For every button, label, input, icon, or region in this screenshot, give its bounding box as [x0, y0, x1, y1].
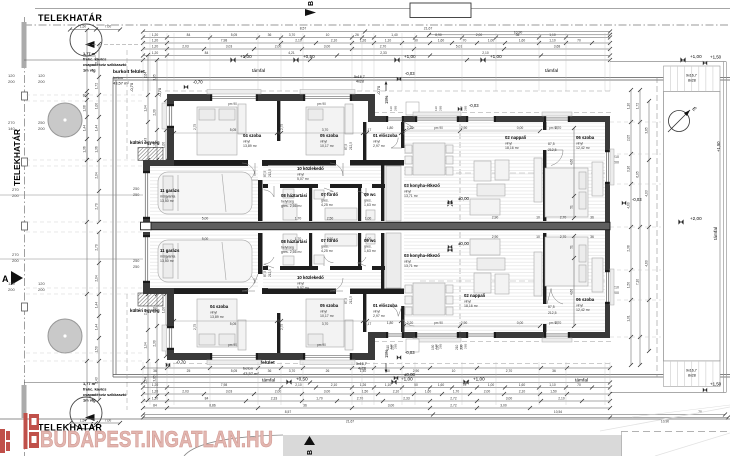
interior wall 05|01 bottom — [363, 294, 366, 332]
top border line — [35, 8, 730, 10]
svg-text:1,10: 1,10 — [385, 38, 392, 42]
soakaway symbol bottom — [70, 397, 102, 429]
svg-text:-0,03: -0,03 — [405, 71, 415, 76]
svg-text:36: 36 — [590, 216, 594, 220]
svg-text:gres.: gres. — [321, 199, 329, 203]
svg-text:1,50: 1,50 — [550, 389, 557, 393]
svg-text:vinyl: vinyl — [297, 173, 304, 177]
svg-text:+1,50: +1,50 — [710, 55, 722, 60]
svg-text:2,00: 2,00 — [275, 389, 282, 393]
svg-text:2,75: 2,75 — [193, 324, 197, 330]
svg-text:87,5: 87,5 — [548, 142, 555, 146]
svg-text:2,30: 2,30 — [153, 340, 157, 346]
svg-text:1,10: 1,10 — [549, 33, 556, 37]
window sill 04 left — [162, 103, 167, 129]
svg-text:25: 25 — [187, 369, 191, 373]
svg-text:2,05: 2,05 — [627, 135, 631, 141]
room 06 dim col — [573, 128, 575, 218]
svg-text:1,72: 1,72 — [95, 83, 99, 89]
svg-text:02 nappali: 02 nappali — [505, 135, 526, 140]
svg-text:8,90: 8,90 — [435, 33, 442, 37]
interior dim line bedrooms top — [174, 132, 401, 134]
svg-text:3,68: 3,68 — [554, 44, 561, 48]
svg-text:támfal: támfal — [713, 227, 719, 240]
svg-text:frakc. kavics: frakc. kavics — [83, 387, 106, 392]
svg-text:1,20: 1,20 — [152, 44, 159, 48]
dim row 21,67 bottom — [143, 417, 728, 419]
kitchen counter bottom — [386, 233, 401, 288]
svg-text:vinyl: vinyl — [373, 310, 380, 314]
svg-text:1,10: 1,10 — [549, 38, 556, 42]
svg-text:212,5: 212,5 — [349, 142, 353, 150]
svg-text:270: 270 — [12, 252, 19, 257]
wardrobe room06 bottom — [592, 258, 603, 292]
dim row 8,57 / 10,54 — [143, 414, 725, 416]
svg-text:3,00: 3,00 — [324, 44, 331, 48]
svg-text:1,80: 1,80 — [387, 126, 394, 130]
svg-text:10: 10 — [326, 33, 330, 37]
party wall end cap — [141, 222, 152, 230]
svg-text:3,00: 3,00 — [506, 396, 513, 400]
svg-text:1,70: 1,70 — [295, 217, 302, 221]
window 06b right — [605, 270, 610, 304]
window sill 06 right — [610, 149, 614, 185]
kitchen counter — [386, 166, 401, 221]
svg-text:támfal: támfal — [252, 68, 265, 74]
svg-text:51: 51 — [570, 245, 574, 249]
svg-text:250: 250 — [133, 187, 139, 191]
svg-text:2,72: 2,72 — [450, 403, 457, 407]
svg-text:2,10: 2,10 — [558, 396, 565, 400]
svg-text:1,50: 1,50 — [80, 25, 87, 29]
svg-text:84: 84 — [205, 51, 209, 55]
svg-text:2,70: 2,70 — [555, 126, 562, 130]
interior dim line kitchen top — [404, 130, 540, 132]
interior wall 07|09 — [358, 188, 361, 221]
svg-text:9x16,7: 9x16,7 — [686, 369, 697, 373]
svg-text:4,21: 4,21 — [288, 51, 295, 55]
svg-text:12,42 m²: 12,42 m² — [576, 146, 591, 150]
property line top dash-dot — [24, 24, 730, 26]
svg-text:vinyl: vinyl — [320, 140, 327, 144]
dim row bottom-left 1,50 7,00 — [70, 422, 120, 424]
terrace right double edge — [723, 62, 725, 393]
svg-text:03 konyha-étkező: 03 konyha-étkező — [404, 253, 440, 258]
garage left wall bottom — [143, 232, 150, 288]
svg-text:36: 36 — [83, 94, 87, 98]
svg-text:200: 200 — [8, 287, 15, 292]
svg-text:8,86: 8,86 — [209, 403, 216, 407]
svg-text:1,90: 1,90 — [153, 142, 157, 148]
window 05 top — [303, 94, 352, 101]
garage door top — [143, 171, 150, 219]
svg-text:2,70: 2,70 — [560, 216, 567, 220]
svg-text:13,50 m²: 13,50 m² — [160, 259, 175, 263]
right dim chains — [630, 90, 632, 365]
dim rows top — [143, 37, 610, 39]
terrace door bottom — [466, 332, 496, 338]
svg-text:2,04: 2,04 — [95, 275, 99, 281]
svg-text:B: B — [307, 450, 314, 455]
dining table bottom — [413, 283, 445, 315]
svg-text:110: 110 — [434, 106, 438, 111]
window 06 bottom — [544, 332, 570, 338]
wall bottom right section — [375, 332, 610, 338]
svg-text:1,10: 1,10 — [627, 103, 631, 109]
svg-text:212,5: 212,5 — [268, 169, 272, 177]
svg-text:pm 90: pm 90 — [434, 321, 443, 325]
svg-text:10,17 m²: 10,17 m² — [320, 144, 335, 148]
svg-text:műgyanta: műgyanta — [160, 195, 175, 199]
svg-text:1,10: 1,10 — [549, 383, 556, 387]
svg-text:1,60: 1,60 — [519, 38, 526, 42]
svg-text:10,54: 10,54 — [554, 410, 562, 414]
svg-text:1,08: 1,08 — [83, 105, 87, 111]
left dim chain x87 — [86, 30, 88, 419]
svg-text:212,5: 212,5 — [349, 296, 353, 304]
svg-text:87,5: 87,5 — [548, 305, 555, 309]
svg-text:1,60: 1,60 — [519, 383, 526, 387]
svg-text:36: 36 — [590, 235, 594, 239]
svg-text:2,70: 2,70 — [380, 44, 387, 48]
watermark small left — [0, 429, 10, 453]
fence panel gray bar — [22, 22, 27, 68]
svg-text:04 szoba: 04 szoba — [210, 304, 229, 309]
svg-text:3,70: 3,70 — [322, 322, 329, 326]
window sill 06 top — [542, 112, 572, 116]
interior wall nappali|06 stub — [543, 122, 546, 130]
window 04 top — [210, 94, 258, 101]
interior wall nappali|06 stub bottom — [543, 324, 546, 332]
svg-text:190: 190 — [431, 344, 435, 350]
svg-text:6,05: 6,05 — [636, 171, 640, 177]
svg-text:1,36: 1,36 — [95, 146, 99, 152]
svg-text:2,97 m²: 2,97 m² — [373, 314, 386, 318]
stairs top right — [664, 66, 721, 92]
svg-text:36: 36 — [268, 33, 272, 37]
svg-text:2,90: 2,90 — [413, 369, 420, 373]
interior wall baths|kitchen — [381, 160, 384, 221]
svg-text:1,00: 1,00 — [95, 103, 99, 109]
svg-text:4,60: 4,60 — [627, 202, 631, 208]
interior wall 04|05 bottom — [277, 313, 280, 353]
level line right top — [610, 61, 726, 63]
svg-text:200: 200 — [460, 344, 464, 350]
svg-text:+1,00: +1,00 — [404, 54, 416, 59]
svg-text:8,57: 8,57 — [285, 410, 292, 414]
watermark logo — [24, 413, 40, 449]
svg-text:06 szoba: 06 szoba — [576, 135, 595, 140]
svg-text:+1,50: +1,50 — [716, 141, 721, 152]
svg-text:2,20: 2,20 — [407, 126, 414, 130]
svg-text:2,37: 2,37 — [95, 57, 99, 63]
svg-text:7,98: 7,98 — [221, 38, 228, 42]
svg-text:műgyanta: műgyanta — [160, 255, 175, 259]
svg-text:3,16: 3,16 — [627, 166, 631, 172]
terrace door top — [466, 116, 496, 122]
svg-text:vinyl: vinyl — [404, 190, 411, 194]
svg-text:gres.: gres. — [321, 245, 329, 249]
svg-text:5,05: 5,05 — [231, 369, 238, 373]
svg-text:1m vtg: 1m vtg — [83, 398, 96, 403]
svg-text:250: 250 — [133, 265, 139, 269]
svg-text:1,70: 1,70 — [316, 396, 323, 400]
svg-text:1,77 m²: 1,77 m² — [83, 51, 97, 56]
svg-text:1,50: 1,50 — [627, 282, 631, 288]
svg-text:1,00: 1,00 — [365, 217, 372, 221]
svg-text:120: 120 — [38, 281, 45, 286]
garage bottom wall — [143, 288, 268, 294]
svg-text:2,10: 2,10 — [331, 38, 338, 42]
svg-text:2,70: 2,70 — [555, 321, 562, 325]
left dim chain x99 — [98, 44, 100, 222]
svg-text:5,07 m²: 5,07 m² — [297, 286, 310, 290]
svg-text:±0,00: ±0,00 — [458, 241, 470, 246]
svg-text:1,94: 1,94 — [144, 105, 148, 111]
svg-text:2,70: 2,70 — [95, 203, 99, 209]
svg-text:1,50: 1,50 — [362, 389, 369, 393]
road dashed line right — [621, 431, 730, 433]
interior wall corridor|baths — [263, 184, 268, 188]
svg-text:1,00: 1,00 — [365, 237, 372, 241]
svg-text:-0,70: -0,70 — [193, 80, 203, 85]
interior wall garage|08 bottom — [258, 233, 263, 274]
driveway lines left — [0, 194, 143, 196]
svg-text:1,10: 1,10 — [385, 383, 392, 387]
svg-text:+1,00: +1,00 — [401, 377, 413, 382]
svg-text:200: 200 — [12, 193, 19, 198]
ramp arrow top — [385, 83, 387, 91]
svg-text:1,60: 1,60 — [438, 38, 445, 42]
svg-text:12,42 m²: 12,42 m² — [576, 308, 591, 312]
svg-text:200: 200 — [38, 79, 45, 84]
window sill 04 — [207, 90, 261, 95]
svg-text:87,5: 87,5 — [344, 144, 348, 150]
svg-text:5,05: 5,05 — [230, 322, 237, 326]
svg-text:7,10: 7,10 — [636, 279, 640, 285]
svg-text:10: 10 — [536, 235, 540, 239]
svg-text:3,70: 3,70 — [322, 128, 329, 132]
svg-text:2,90: 2,90 — [492, 235, 499, 239]
garage left wall — [143, 166, 150, 222]
window nappali top — [415, 116, 459, 122]
svg-text:43,57 m²: 43,57 m² — [243, 371, 259, 376]
svg-text:3,00: 3,00 — [388, 403, 395, 407]
svg-text:2,75: 2,75 — [193, 124, 197, 130]
svg-text:120: 120 — [8, 281, 15, 286]
interior wall bedrooms|halls bottom — [174, 289, 248, 295]
wardrobe room05 — [345, 104, 353, 134]
bed room04 — [197, 107, 237, 155]
wardrobe room04 — [238, 104, 246, 134]
bed room06 — [545, 168, 588, 217]
window sill 06b right — [610, 269, 614, 305]
window 06 top — [544, 116, 570, 122]
svg-text:0,00: 0,00 — [517, 321, 524, 325]
svg-text:01 előszoba: 01 előszoba — [373, 303, 398, 308]
svg-text:3,00: 3,00 — [324, 389, 331, 393]
window sill 06 bottom — [542, 338, 572, 342]
svg-text:1,00: 1,00 — [162, 307, 166, 313]
tree bottom — [48, 319, 82, 353]
interior wall 01|nappali — [401, 122, 404, 148]
svg-text:15%: 15% — [384, 95, 389, 104]
svg-text:1,36: 1,36 — [83, 146, 87, 152]
svg-text:84: 84 — [153, 403, 157, 407]
svg-text:1,44: 1,44 — [95, 302, 99, 308]
svg-text:-0,70: -0,70 — [176, 360, 186, 365]
svg-text:11 garázs: 11 garázs — [160, 188, 180, 193]
wall right exterior — [605, 116, 610, 338]
svg-text:50: 50 — [414, 38, 418, 42]
bed room05 — [306, 107, 344, 155]
svg-text:2,00: 2,00 — [484, 389, 491, 393]
svg-text:2,10: 2,10 — [295, 38, 302, 42]
svg-text:2,75: 2,75 — [280, 324, 284, 330]
interior wall baths|kitchen bottom — [381, 233, 384, 294]
svg-text:2,30: 2,30 — [153, 109, 157, 115]
svg-text:2,33: 2,33 — [403, 396, 410, 400]
svg-text:13,89 m²: 13,89 m² — [210, 315, 225, 319]
window sill nappali top — [413, 112, 461, 116]
svg-text:3,70: 3,70 — [289, 369, 296, 373]
svg-text:18,16 m²: 18,16 m² — [505, 146, 520, 150]
svg-text:1,80: 1,80 — [387, 321, 394, 325]
svg-text:36: 36 — [268, 369, 272, 373]
svg-text:1,94: 1,94 — [144, 342, 148, 348]
entry door gap bottom — [386, 332, 404, 338]
svg-text:csapadékvíz szikkasztó: csapadékvíz szikkasztó — [83, 392, 127, 397]
svg-text:21,67: 21,67 — [346, 419, 354, 423]
dim rows bottom — [143, 367, 610, 369]
car garage bottom — [158, 240, 252, 282]
svg-text:7,00: 7,00 — [105, 25, 112, 29]
faint road diagonals — [600, 407, 730, 431]
wardrobe room04 bottom — [238, 320, 246, 350]
interior wall nappali|06 — [543, 150, 546, 221]
svg-text:4,25 m²: 4,25 m² — [321, 203, 334, 207]
interior wall 07|09 bottom — [358, 233, 361, 266]
svg-text:2,75: 2,75 — [280, 124, 284, 130]
svg-text:5,00: 5,00 — [202, 237, 209, 241]
level line row — [24, 59, 610, 61]
svg-text:5,05: 5,05 — [230, 128, 237, 132]
svg-text:2,70: 2,70 — [560, 235, 567, 239]
window 04 left — [167, 104, 174, 128]
svg-text:2,70: 2,70 — [357, 396, 364, 400]
entry door gap — [386, 116, 404, 122]
svg-text:26: 26 — [326, 369, 330, 373]
window 04 bottom — [210, 353, 258, 360]
svg-text:2,03: 2,03 — [182, 44, 189, 48]
svg-text:10: 10 — [452, 369, 456, 373]
extension lines top — [142, 33, 144, 91]
terrace outline — [664, 92, 721, 362]
fence post squares — [22, 92, 28, 100]
svg-text:5,07 m²: 5,07 m² — [297, 177, 310, 181]
svg-text:1,20: 1,20 — [152, 38, 159, 42]
party wall — [151, 222, 610, 230]
svg-text:2,00: 2,00 — [275, 44, 282, 48]
svg-text:36: 36 — [303, 403, 307, 407]
svg-text:5x16,7: 5x16,7 — [356, 362, 367, 366]
svg-text:36: 36 — [552, 369, 556, 373]
bed room06 bottom — [545, 237, 588, 286]
svg-text:1,26: 1,26 — [360, 383, 367, 387]
svg-text:pm 90: pm 90 — [317, 102, 326, 106]
svg-text:2,50: 2,50 — [327, 237, 334, 241]
svg-text:1,70: 1,70 — [295, 237, 302, 241]
svg-text:1,44: 1,44 — [95, 125, 99, 131]
svg-text:1,63 m²: 1,63 m² — [364, 249, 377, 253]
svg-text:3,05: 3,05 — [153, 74, 157, 80]
extension lines bottom — [142, 362, 144, 405]
svg-text:3,03: 3,03 — [226, 44, 233, 48]
entry mat bottom — [406, 339, 419, 352]
svg-text:1,20: 1,20 — [152, 51, 159, 55]
svg-text:10: 10 — [536, 216, 540, 220]
svg-text:2,20: 2,20 — [407, 321, 414, 325]
svg-text:gres. 2,66 m²: gres. 2,66 m² — [281, 250, 302, 254]
floor hatch areas — [404, 122, 605, 222]
svg-text:87,5: 87,5 — [344, 298, 348, 304]
svg-text:21,67: 21,67 — [424, 27, 433, 31]
svg-text:2,97 m²: 2,97 m² — [373, 144, 386, 148]
svg-text:87,5: 87,5 — [263, 271, 267, 277]
svg-text:csapadékvíz szikkasztó: csapadékvíz szikkasztó — [83, 62, 127, 67]
svg-text:3,05: 3,05 — [153, 375, 157, 381]
wall left upper — [167, 101, 174, 160]
svg-text:5,00: 5,00 — [202, 217, 209, 221]
interior wall garage|08 — [258, 180, 263, 221]
svg-text:1,44: 1,44 — [83, 125, 87, 131]
svg-text:200: 200 — [38, 126, 45, 131]
svg-text:2,33: 2,33 — [380, 51, 387, 55]
window nappali bottom — [415, 332, 459, 338]
svg-text:4,03: 4,03 — [645, 190, 649, 196]
svg-text:120: 120 — [8, 73, 15, 78]
svg-text:helyiség: helyiség — [281, 246, 294, 250]
svg-text:13,71 m²: 13,71 m² — [404, 264, 419, 268]
wall step entrance — [368, 94, 375, 122]
svg-text:4x28: 4x28 — [358, 367, 366, 371]
svg-text:07 fürdő: 07 fürdő — [321, 192, 338, 197]
svg-text:265: 265 — [464, 344, 468, 349]
svg-text:vinyl: vinyl — [297, 282, 304, 286]
svg-text:2,43: 2,43 — [144, 138, 148, 144]
svg-text:-0,03: -0,03 — [469, 103, 479, 108]
wardrobe room05 bottom — [345, 320, 353, 350]
svg-text:13,89 m²: 13,89 m² — [243, 144, 258, 148]
svg-text:7,98: 7,98 — [221, 383, 228, 387]
svg-text:4,60: 4,60 — [570, 289, 574, 295]
svg-text:110: 110 — [459, 106, 463, 111]
svg-text:2,70: 2,70 — [506, 369, 513, 373]
svg-text:2,10: 2,10 — [331, 383, 338, 387]
ridge dashed bottom unit — [420, 280, 612, 282]
svg-text:-0,70: -0,70 — [376, 85, 381, 95]
svg-text:08 háztartási: 08 háztartási — [281, 193, 307, 198]
interior wall corridor|baths bottom — [263, 266, 268, 270]
window 05 bottom — [303, 353, 352, 360]
svg-text:210: 210 — [455, 344, 459, 350]
svg-text:1,60: 1,60 — [425, 389, 432, 393]
svg-text:36: 36 — [153, 369, 157, 373]
svg-text:140: 140 — [8, 126, 15, 131]
interior wall 05|01 — [363, 122, 366, 160]
property line left dash-dot — [24, 17, 26, 456]
svg-text:2,10: 2,10 — [295, 383, 302, 387]
